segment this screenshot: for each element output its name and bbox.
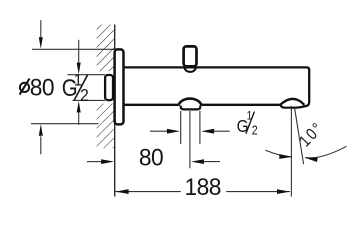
outlet left extension line (for G1/2) — [180, 111, 182, 144]
text ø80 : ø symbol — [20, 83, 29, 92]
inlet nipple G1/2 (behind wall) — [105, 75, 113, 100]
dimension G1/2 lower dimension line + arrow — [78, 113, 80, 125]
tip lip upper arc — [280, 99, 304, 105]
svg-text:2: 2 — [80, 85, 89, 105]
10deg inclined line — [294, 107, 303, 165]
tip lip lower edge — [280, 104, 305, 108]
dimension ø80 top extension line — [32, 48, 116, 50]
dimension G1/2 (outlet) left arrow — [150, 130, 168, 132]
dimension ø80 upper dimension line + arrow — [40, 20, 42, 38]
svg-text:2: 2 — [252, 124, 258, 138]
dimension 80 left arrow — [87, 161, 103, 163]
diverter dome (below top edge) — [184, 67, 196, 72]
svg-text:80: 80 — [139, 144, 164, 171]
tip vertical extension line (188 / 10deg reference) — [290, 106, 292, 197]
dimension 188 line + arrows — [116, 191, 181, 193]
dimension G1/2 (inlet) top extension line — [68, 74, 106, 76]
dimension G1/2 upper dimension line + arrow — [78, 40, 80, 63]
10deg left arc + arrow — [266, 150, 292, 157]
diverter knob — [184, 46, 197, 66]
spout bottom edge (right of outlet) — [202, 104, 281, 106]
wall (hatched) — [97, 25, 115, 149]
svg-text:188: 188 — [185, 173, 221, 200]
outlet centre extension line (for 80) — [189, 111, 191, 168]
wall face line / extension line — [114, 25, 116, 197]
wall flange (escutcheon) — [115, 49, 124, 124]
dimension ø80 bottom extension line — [31, 123, 99, 125]
outlet right extension line (for G1/2) — [199, 111, 201, 144]
dimension ø80 lower dimension line + arrow — [40, 136, 42, 154]
svg-text:80: 80 — [30, 74, 55, 101]
dimension 80 right arrow — [204, 161, 221, 163]
wall clearance around inlet nipple — [95, 71, 115, 103]
bottom outlet cap — [181, 104, 201, 110]
dimension G1/2 (outlet) right arrow — [214, 130, 230, 132]
spout body: top edge, right edge — [123, 67, 309, 106]
dimension G1/2 (inlet) bottom extension line — [73, 99, 106, 101]
10deg right arc + arrow — [305, 146, 346, 158]
spout bottom edge (left of outlet) — [123, 104, 178, 106]
bottom outlet dome — [178, 99, 201, 106]
